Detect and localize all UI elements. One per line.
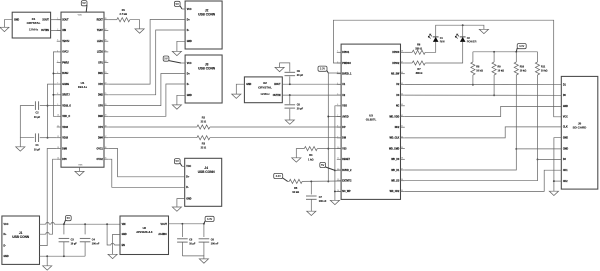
- wire U1 DP3 to J3 D+: [108, 74, 185, 106]
- wire C8 to ground: [289, 109, 291, 120]
- ground at R1: [135, 29, 144, 33]
- svg-text:AP2112K-3.3: AP2112K-3.3: [136, 230, 153, 234]
- svg-text:12: 12: [57, 136, 59, 138]
- svg-text:DM1: DM1: [98, 73, 104, 75]
- svg-text:DM2: DM2: [98, 95, 104, 97]
- wire R3 to U3 DM: [210, 137, 341, 139]
- svg-text:ACJ/NC: ACJ/NC: [158, 233, 167, 236]
- svg-text:EXTNTC: EXTNTC: [342, 181, 352, 183]
- svg-text:WD_D0: WD_D0: [391, 159, 400, 161]
- svg-text:VCC: VCC: [186, 166, 191, 168]
- wire R8 top: [472, 52, 474, 62]
- svg-text:21: 21: [105, 93, 107, 95]
- svg-text:VCC: VCC: [563, 117, 568, 119]
- svg-text:35: 35: [401, 190, 403, 192]
- wire R10 top: [515, 52, 517, 62]
- wire J1 D+ to U1 DP0: [40, 159, 57, 234]
- svg-text:6: 6: [57, 72, 58, 74]
- wire U2 EN to VIN rail: [107, 224, 120, 245]
- wire C3 bottom: [63, 242, 65, 256]
- svg-text:VD18: VD18: [62, 138, 68, 140]
- svg-text:9: 9: [337, 136, 338, 138]
- capacitor C6: [199, 239, 210, 242]
- svg-text:GANG: GANG: [62, 83, 69, 86]
- svg-text:3.3V: 3.3V: [519, 44, 525, 48]
- wire J4 GND: [177, 199, 185, 207]
- svg-text:VD33: VD33: [62, 127, 68, 129]
- svg-text:1: 1: [57, 18, 58, 20]
- svg-text:100 nF: 100 nF: [92, 242, 100, 245]
- wire C1 to ground: [20, 138, 34, 147]
- svg-text:OUT/IN: OUT/IN: [273, 95, 281, 97]
- wire R11 top: [537, 52, 539, 62]
- ground at U3 VSS: [330, 200, 339, 204]
- svg-text:10 kΩ: 10 kΩ: [498, 69, 505, 72]
- wire U3 WD_D3 to J5 CD1: [405, 170, 562, 191]
- svg-text:LED1: LED1: [97, 41, 104, 43]
- svg-text:3.3V: 3.3V: [207, 217, 213, 221]
- svg-text:R10: R10: [520, 65, 525, 68]
- wire U3 WD_VDD to J5 GND: [405, 106, 562, 116]
- wire U3 D2 to J5 D1: [405, 83, 562, 85]
- capacitor C1: [35, 133, 38, 142]
- wire J2 VCC: [182, 8, 185, 10]
- svg-text:GND: GND: [14, 20, 19, 22]
- ground at C5 C6: [199, 259, 208, 263]
- svg-text:17: 17: [105, 136, 107, 138]
- svg-text:8: 8: [337, 126, 338, 128]
- svg-text:10 kΩ: 10 kΩ: [476, 69, 483, 72]
- svg-text:19: 19: [105, 115, 107, 117]
- svg-text:CRYSTAL: CRYSTAL: [258, 85, 272, 89]
- wire R6 to D1: [425, 42, 436, 52]
- svg-text:23: 23: [105, 72, 107, 74]
- wire U3 DPIO0 to R6: [405, 51, 412, 53]
- svg-text:XOUT: XOUT: [42, 20, 49, 22]
- resistor R1: [117, 18, 130, 22]
- svg-text:NC_WP: NC_WP: [342, 191, 351, 193]
- svg-text:VCC: VCC: [187, 63, 192, 65]
- svg-text:WD_D1: WD_D1: [391, 170, 400, 172]
- ground at J2: [172, 51, 181, 55]
- svg-text:7: 7: [57, 83, 58, 85]
- wire J1 VCC rail to U2 VIN: [40, 223, 121, 225]
- wire U2 VOUT rail: [169, 223, 204, 225]
- wire C5 top: [181, 224, 183, 237]
- svg-text:48: 48: [401, 51, 403, 53]
- wire C6 top: [203, 224, 205, 237]
- wire J1 GND rail: [40, 255, 86, 257]
- svg-text:GND: GND: [187, 95, 192, 97]
- svg-text:DP1: DP1: [98, 62, 103, 64]
- svg-text:DM4: DM4: [98, 137, 104, 140]
- svg-text:DPIO1: DPIO1: [342, 52, 350, 54]
- wire R2 to U3 DP: [210, 126, 341, 128]
- capacitor C5: [177, 239, 188, 242]
- ground at LEDs: [479, 29, 488, 33]
- wire J4 VCC: [182, 165, 185, 167]
- svg-text:22 Ω: 22 Ω: [201, 147, 206, 150]
- wire U3 V33 to bus: [328, 148, 341, 150]
- svg-text:20: 20: [105, 104, 107, 106]
- svg-text:VCC: VCC: [187, 9, 192, 11]
- svg-text:5V: 5V: [82, 1, 86, 5]
- svg-text:12MHz: 12MHz: [29, 27, 39, 31]
- wire J3 VCC: [181, 62, 185, 64]
- svg-text:USB CONN: USB CONN: [12, 235, 30, 239]
- svg-text:USB CONN: USB CONN: [198, 67, 216, 71]
- wire X2 OUT/IN to U3 X2: [282, 94, 341, 96]
- svg-text:D-: D-: [187, 30, 190, 32]
- svg-text:OUT/IN: OUT/IN: [41, 30, 49, 32]
- svg-text:TEST: TEST: [97, 30, 103, 32]
- wire C7 to ground: [310, 199, 312, 211]
- svg-text:330 Ω: 330 Ω: [415, 47, 422, 50]
- svg-text:GND: GND: [187, 41, 192, 43]
- svg-text:VSS: VSS: [78, 165, 83, 167]
- wire U1 OVCJ bus: [53, 52, 56, 116]
- ground at C9: [275, 67, 284, 71]
- wire 5V to U3 BVDD_2: [335, 169, 341, 171]
- svg-text:XOUT: XOUT: [274, 84, 281, 86]
- svg-text:41: 41: [401, 126, 403, 128]
- wire U3 WD_CLK to J5 CLK: [405, 127, 562, 138]
- U1 left pin stubs and labels: [57, 18, 72, 161]
- svg-text:DM3: DM3: [98, 116, 104, 118]
- wire 3.3V pullup rail: [473, 51, 538, 53]
- svg-text:GND: GND: [563, 138, 568, 140]
- ground at C7: [307, 211, 316, 215]
- svg-text:1 kΩ: 1 kΩ: [308, 158, 313, 161]
- svg-text:100 nF: 100 nF: [211, 243, 219, 246]
- wire R10 bottom: [515, 75, 517, 149]
- svg-text:VD18_O: VD18_O: [62, 105, 71, 107]
- svg-text:GND: GND: [246, 84, 251, 86]
- wire U1 VSS to ground: [79, 167, 81, 171]
- wire U1 VD18_O: [48, 105, 57, 107]
- wire U1 DMD to R3: [108, 137, 197, 139]
- svg-text:20 pF: 20 pF: [297, 108, 304, 111]
- svg-text:47: 47: [401, 61, 403, 63]
- svg-text:XRSTJ: XRSTJ: [62, 95, 70, 97]
- svg-text:11: 11: [57, 125, 59, 127]
- wire U3 VSS ground bus: [335, 106, 341, 201]
- svg-text:USB CONN: USB CONN: [198, 13, 216, 17]
- wire X1 XOUT to U1: [51, 19, 61, 21]
- svg-text:BVDD_1: BVDD_1: [342, 74, 352, 76]
- resistor R8: [471, 62, 475, 75]
- resistor R7: [412, 61, 425, 65]
- ground at J3: [172, 105, 181, 109]
- wire VD18 to C1: [40, 137, 48, 139]
- wire J1 D- to U1 DM0: [40, 149, 57, 246]
- resistor R4: [304, 147, 317, 151]
- svg-text:5: 5: [337, 94, 338, 96]
- power flag 3.3V at pullups: [516, 44, 526, 52]
- svg-text:11: 11: [337, 158, 339, 160]
- wire bus to U3 AVDD: [328, 116, 341, 118]
- svg-text:37: 37: [401, 168, 403, 170]
- power flag 3.3V at U2 VOUT: [204, 216, 214, 224]
- capacitor C8: [285, 105, 296, 108]
- wire bus to U1 BUSJ: [53, 72, 56, 74]
- svg-text:5: 5: [57, 61, 58, 63]
- svg-text:9: 9: [57, 104, 58, 106]
- power flag 5V at J3: [163, 56, 181, 63]
- resistor R6: [412, 50, 425, 54]
- svg-text:NC2: NC2: [395, 127, 400, 129]
- svg-text:XOUT: XOUT: [62, 20, 69, 22]
- svg-text:DP2: DP2: [98, 84, 103, 86]
- svg-text:46: 46: [401, 72, 403, 74]
- svg-text:5V: 5V: [67, 216, 71, 220]
- svg-text:CLK: CLK: [563, 127, 568, 129]
- SD card connector J5: [561, 76, 598, 189]
- svg-text:VIN: VIN: [122, 224, 126, 226]
- svg-text:VSS: VSS: [342, 106, 347, 108]
- ground at C1 C2: [16, 147, 25, 151]
- svg-text:V33: V33: [342, 148, 347, 150]
- svg-text:GND: GND: [122, 234, 127, 236]
- svg-text:EN: EN: [122, 245, 126, 247]
- wire U1 GANG/VD18 bus: [48, 84, 57, 138]
- ground at X1: [0, 27, 9, 31]
- resistor R10: [514, 62, 518, 75]
- wire C7 top: [310, 181, 312, 194]
- capacitor C2: [35, 101, 38, 110]
- svg-text:4: 4: [337, 83, 338, 85]
- svg-text:12MHz: 12MHz: [260, 92, 270, 96]
- svg-text:18: 18: [105, 125, 107, 127]
- wire J5 CD2 to ground riser: [554, 180, 561, 182]
- capacitor C4: [80, 238, 91, 241]
- crystal X1: [12, 12, 50, 38]
- wire C6 bottom: [203, 242, 205, 256]
- svg-text:DM: DM: [342, 138, 346, 140]
- svg-text:GL827L: GL827L: [366, 118, 377, 122]
- wire U1 DPD to R2: [108, 126, 197, 128]
- capacitor C7: [306, 196, 317, 199]
- svg-text:PWRJ: PWRJ: [62, 62, 69, 64]
- svg-text:DP: DP: [342, 127, 346, 129]
- resistor R11: [535, 62, 539, 75]
- USB connector J2: [185, 1, 222, 49]
- ground at J4: [172, 207, 181, 211]
- wire R4 right: [317, 148, 328, 150]
- svg-text:BVDD_2: BVDD_2: [342, 170, 352, 172]
- svg-text:100 nF: 100 nF: [319, 200, 327, 203]
- wire bus to U3 NC_WP: [335, 190, 341, 192]
- svg-text:WD_CD2: WD_CD2: [390, 191, 400, 193]
- capacitor C9: [285, 72, 296, 75]
- svg-text:BUSJ: BUSJ: [62, 73, 69, 75]
- svg-text:U2: U2: [143, 226, 147, 230]
- wire J2 GND: [177, 41, 185, 51]
- wire to ground under J1: [46, 256, 48, 266]
- svg-text:NS_SW: NS_SW: [391, 74, 400, 76]
- wire J3 GND: [177, 95, 185, 105]
- svg-text:D-: D-: [186, 187, 189, 189]
- svg-text:D1: D1: [440, 36, 444, 40]
- wire D1 D2 cathodes to ground: [436, 25, 484, 37]
- wire U1 VD18: [48, 137, 57, 139]
- svg-text:10 kΩ: 10 kΩ: [520, 69, 527, 72]
- wire U1 DP2 to J2 D+: [108, 20, 185, 85]
- svg-text:VCC: VCC: [4, 224, 9, 226]
- svg-text:14: 14: [57, 158, 59, 160]
- wire C2 to C1 junction: [20, 106, 34, 138]
- wire C3 top: [63, 224, 65, 234]
- ground at J5: [549, 191, 558, 195]
- svg-text:GND: GND: [4, 256, 9, 258]
- svg-text:10 kΩ: 10 kΩ: [541, 69, 548, 72]
- wire R1 to ground: [130, 20, 140, 29]
- svg-text:TESTJ: TESTJ: [62, 41, 70, 43]
- svg-text:CRYSTAL: CRYSTAL: [27, 21, 41, 25]
- svg-text:28: 28: [105, 18, 107, 20]
- wire U1 DP4 to J4 D+: [108, 149, 184, 177]
- wire C8 top: [289, 95, 291, 104]
- wire bus to U1 XRSTJ: [53, 94, 56, 96]
- svg-text:CD1: CD1: [563, 170, 568, 172]
- crystal X2: [244, 77, 282, 103]
- svg-text:10: 10: [57, 115, 59, 117]
- svg-text:2.7 kΩ: 2.7 kΩ: [120, 13, 128, 16]
- svg-text:40: 40: [401, 136, 403, 138]
- svg-text:330 Ω: 330 Ω: [416, 72, 423, 75]
- svg-text:LED2: LED2: [97, 52, 104, 54]
- svg-text:16: 16: [105, 147, 107, 149]
- svg-text:5V: 5V: [175, 159, 179, 163]
- svg-text:DP4: DP4: [98, 126, 103, 129]
- wire R8 bottom: [472, 75, 474, 85]
- svg-text:GND: GND: [563, 106, 568, 108]
- svg-text:27: 27: [105, 29, 107, 31]
- svg-text:4: 4: [57, 50, 58, 52]
- svg-text:CD2: CD2: [563, 181, 568, 183]
- wire R11 bottom: [537, 75, 539, 159]
- wire VD18_O to C2: [40, 105, 48, 107]
- svg-text:R/W: R/W: [440, 40, 446, 44]
- svg-text:DPIO2: DPIO2: [392, 63, 400, 65]
- svg-text:WD_CMD: WD_CMD: [389, 148, 400, 150]
- svg-text:22: 22: [105, 83, 107, 85]
- svg-text:WD_CLK: WD_CLK: [389, 138, 399, 140]
- wire D2 cathode: [462, 25, 464, 37]
- svg-text:USB CONN: USB CONN: [198, 170, 216, 174]
- svg-text:XIN: XIN: [62, 30, 66, 32]
- ground at R4: [292, 158, 301, 162]
- J5 pin labels: [563, 85, 569, 183]
- svg-text:10 kΩ: 10 kΩ: [292, 191, 299, 194]
- LED D2: [455, 34, 476, 44]
- svg-text:13: 13: [57, 147, 59, 149]
- svg-text:45: 45: [401, 83, 403, 85]
- svg-text:26: 26: [105, 40, 107, 42]
- wire R5 to U3 EXTNTC: [302, 180, 341, 182]
- svg-text:FE1.1s: FE1.1s: [78, 85, 88, 89]
- svg-text:DM0: DM0: [62, 148, 68, 150]
- power flag 5V at U1 VDD: [81, 1, 87, 13]
- wire J5 GND to ground: [554, 138, 561, 192]
- wire flag to R5: [288, 180, 290, 182]
- wire U3 DPIO2 to R7: [405, 62, 412, 64]
- wire X1 GND to ground: [4, 20, 12, 28]
- svg-text:OVC1: OVC1: [97, 148, 104, 150]
- svg-text:OVC2: OVC2: [97, 159, 104, 161]
- svg-text:RESET: RESET: [342, 159, 350, 161]
- LED D1: [428, 34, 445, 44]
- wire U3 WD_D1 to J5 D3: [405, 159, 562, 180]
- svg-text:VDD: VDD: [78, 15, 83, 17]
- wire R4 to ground: [296, 149, 304, 158]
- wire U1 DM3 to J3 D-: [108, 84, 185, 116]
- svg-text:42: 42: [401, 115, 403, 117]
- svg-text:25: 25: [105, 50, 107, 52]
- wire U3 WD_D0 to J5 CMD: [405, 149, 562, 170]
- wire C5 bottom: [181, 242, 183, 256]
- ground at U1 VSS: [75, 171, 84, 175]
- wire U3 3.3V bus: [327, 73, 329, 181]
- ground at U2: [108, 254, 117, 258]
- svg-text:5V: 5V: [164, 57, 168, 61]
- svg-text:VOUT: VOUT: [161, 224, 168, 226]
- svg-text:DP3: DP3: [98, 105, 103, 107]
- card reader IC U3: [341, 44, 400, 199]
- wire U1 DM2 to J2 D-: [108, 30, 185, 95]
- svg-text:OVCJ: OVCJ: [62, 52, 69, 54]
- svg-text:R11: R11: [541, 65, 546, 68]
- svg-text:WD_D3: WD_D3: [391, 181, 400, 183]
- svg-text:VDD_O: VDD_O: [62, 116, 70, 118]
- svg-text:D2: D2: [467, 36, 471, 40]
- svg-text:43: 43: [401, 104, 403, 106]
- power flag 3.3V at U3 BVDD_1: [318, 66, 328, 73]
- svg-text:5V: 5V: [321, 163, 325, 167]
- U3 right pin stubs and labels: [389, 51, 405, 194]
- ground at X2: [232, 94, 241, 98]
- svg-text:DPIO0: DPIO0: [392, 52, 400, 54]
- svg-text:10 µF: 10 µF: [189, 243, 196, 246]
- power flag 5V at U3: [320, 162, 335, 170]
- svg-text:1: 1: [337, 51, 338, 53]
- power flag 5V at J1 VCC: [64, 216, 71, 225]
- wire C4 bottom: [84, 242, 86, 256]
- resistor R3: [197, 136, 210, 140]
- wire U2 GND to ground: [113, 234, 120, 254]
- ground at C8: [285, 120, 294, 124]
- svg-text:AVDD: AVDD: [342, 115, 349, 118]
- resistor R2: [197, 125, 210, 129]
- resistor R9: [492, 62, 496, 75]
- wire C9 to ground: [280, 63, 290, 72]
- svg-text:PWDSO: PWDSO: [342, 63, 351, 65]
- wire 3.3V to U3 BVDD_1: [328, 72, 341, 74]
- power flag 3.3V at R5: [274, 173, 288, 181]
- svg-text:D-: D-: [4, 245, 7, 247]
- svg-text:10 µF: 10 µF: [34, 148, 41, 151]
- U1 right pin stubs and labels: [97, 18, 109, 161]
- svg-text:SD CARD: SD CARD: [573, 126, 588, 130]
- svg-text:2: 2: [57, 29, 58, 31]
- svg-text:38: 38: [401, 158, 403, 160]
- svg-text:3.3V: 3.3V: [276, 174, 282, 178]
- ground at J1: [43, 266, 52, 270]
- svg-text:GND: GND: [186, 198, 191, 200]
- svg-text:DP0: DP0: [62, 159, 67, 161]
- svg-text:10 µF: 10 µF: [71, 242, 78, 245]
- svg-text:44: 44: [401, 94, 403, 96]
